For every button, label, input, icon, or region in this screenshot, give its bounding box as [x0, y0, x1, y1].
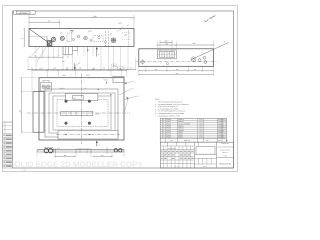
view 1 short extension stubs below edge	[58, 47, 60, 56]
title block left grid text blobs	[161, 151, 163, 152]
view 2: long side view top-right, outline	[139, 49, 214, 67]
title block row A cells	[166, 142, 168, 146]
svg-text:75: 75	[48, 19, 50, 22]
surface finish symbols top-right	[204, 19, 208, 21]
leaders lower right of plan	[124, 98, 129, 114]
inner drawing frame	[13, 11, 234, 168]
view 1 extension lines down	[35, 47, 37, 70]
svg-text:940: 940	[94, 15, 97, 18]
svg-text:B40-PLATE: B40-PLATE	[168, 148, 175, 150]
svg-text:PRESS DIE: PRESS DIE	[222, 143, 229, 145]
view 1 leader diagonals	[30, 47, 40, 58]
view 1 more holes	[72, 38, 74, 40]
view 3 corner bolt circles	[65, 100, 68, 103]
view 1: long side view top-left, outline	[29, 29, 134, 47]
svg-text:SET-UP: SET-UP	[223, 152, 228, 154]
view 1 bottom dimension row	[28, 69, 136, 71]
view 1 star knob feature	[111, 38, 116, 43]
view 3 central slot	[61, 111, 93, 115]
view 4 extension verticals	[36, 152, 38, 157]
title block left grid rows	[161, 145, 195, 147]
title block	[161, 142, 234, 168]
view 2 top dimensions	[158, 44, 177, 46]
view 3 top dimension row	[32, 69, 127, 71]
svg-text:5: 5	[134, 80, 135, 83]
view 2 bottom dimension row 2	[139, 74, 214, 76]
svg-text:160: 160	[194, 69, 197, 71]
svg-text:9: 9	[138, 95, 139, 98]
svg-text:BACKING PLATE: BACKING PLATE	[220, 150, 230, 152]
small framed labels right of dim row	[112, 64, 117, 67]
svg-text:2D4-D40: 2D4-D40	[20, 12, 27, 15]
section arrow above plan view	[74, 63, 76, 68]
svg-text:SOLID EDGE 2D MODELLER COPY: SOLID EDGE 2D MODELLER COPY	[9, 160, 143, 169]
view 1 bottom protruding slot section	[63, 47, 72, 55]
view 1 top dimension lines	[29, 17, 134, 19]
svg-text:PDM-LIX-FIB: PDM-LIX-FIB	[219, 163, 231, 166]
svg-text:▴35: ▴35	[78, 62, 80, 64]
svg-text:55: 55	[34, 55, 36, 57]
view 3: plan view outline	[39, 78, 124, 140]
section arrow below plan view	[96, 142, 98, 147]
parts list table	[160, 118, 226, 138]
view 1 internal holes	[51, 37, 55, 41]
title block right column	[216, 142, 218, 168]
svg-text:12.5: 12.5	[214, 15, 217, 17]
view 4 dimension below	[55, 156, 75, 158]
title block logo box	[196, 147, 215, 155]
view 2 boss with steps	[158, 50, 177, 59]
view 2 diamond locator	[140, 60, 144, 64]
view 3 center lines	[27, 112, 130, 114]
view 2 leader diagonal from corner	[191, 43, 229, 61]
svg-text:▴8: ▴8	[110, 33, 112, 36]
svg-text:45: 45	[47, 55, 49, 57]
view 1 dark clamp block	[47, 41, 52, 47]
view 4 right rings	[114, 149, 117, 152]
view 3 central block	[65, 93, 98, 100]
view 2 center line	[136, 60, 217, 62]
view 3 bottom cutout	[58, 130, 118, 139]
svg-text:90: 90	[21, 37, 23, 40]
view 3 top-left hole detail	[41, 83, 52, 92]
svg-text:50: 50	[57, 55, 59, 57]
svg-text:~: ~	[207, 17, 208, 19]
svg-text:120: 120	[155, 69, 158, 71]
view 3 left boss	[33, 92, 44, 133]
svg-text:7: 7	[134, 87, 135, 90]
svg-text:▴12.5: ▴12.5	[88, 30, 92, 33]
view 2 bottom dimension row 1	[139, 70, 214, 72]
view 1 dashed slots	[67, 33, 72, 42]
title block mid small boxes row	[194, 153, 216, 155]
view 3 leaders to right annotations	[119, 88, 134, 95]
view 4: bottom edge view	[37, 149, 124, 151]
table footer header row	[160, 138, 226, 142]
view 2 right holes	[191, 57, 196, 62]
title block left grid columns	[162, 146, 164, 168]
title label box top-left	[14, 11, 36, 15]
view 3 nested rectangles	[45, 89, 118, 137]
svg-text:M12: M12	[62, 61, 65, 63]
svg-text:N.T.S: N.T.S	[203, 166, 206, 168]
view 3 top-right tab	[113, 76, 124, 82]
view 1 chamfer diagonal	[29, 29, 47, 42]
view 1 mid dimension row	[29, 56, 63, 58]
view 3 arrows into corners	[97, 89, 99, 91]
revision ladder table (left margin)	[3, 122, 13, 168]
view 1 left height dimension	[23, 29, 25, 47]
view 4 mid ticks	[75, 149, 77, 153]
view 3 left dimension column	[21, 78, 23, 133]
view 4 left rings	[44, 148, 48, 152]
outer sheet border	[3, 6, 238, 172]
svg-text:250: 250	[176, 69, 179, 71]
